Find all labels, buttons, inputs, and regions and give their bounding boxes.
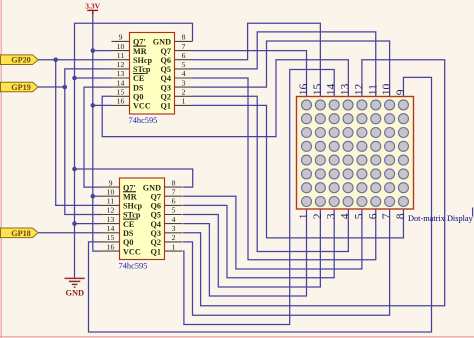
pin 15 stub U2 [102,241,120,243]
svg-text:SHcp: SHcp [123,202,143,211]
svg-text:2: 2 [311,213,324,219]
svg-text:MR: MR [133,47,147,56]
svg-text:GND: GND [65,289,84,298]
svg-text:7: 7 [182,42,186,51]
svg-text:DS: DS [123,229,134,238]
node junction at 92.8,196.2 [91,194,96,199]
svg-text:15: 15 [107,233,115,242]
node junction at 92.8,105.4 [91,103,96,108]
svg-text:SHcp: SHcp [133,56,153,65]
svg-text:16: 16 [117,97,125,106]
wire IC1 pin6 Q6 to display pin15 [193,23,321,96]
pin 11 stub U1 [112,59,130,61]
svg-text:13: 13 [339,84,352,96]
pin 7 stub U1 [175,50,193,52]
svg-text:16: 16 [297,84,310,96]
svg-text:11: 11 [117,51,125,60]
pin 5 stub U2 [165,214,183,216]
svg-text:12: 12 [117,60,125,69]
wire IC1 pin2 Q2 to display pin4 [193,96,349,251]
wire IC1 pin4 Q4 to display pin6 [193,78,376,260]
svg-text:Q6: Q6 [161,56,171,65]
svg-text:Q7: Q7 [161,47,171,56]
wire IC1 pin3 Q3 to display pin10 [193,41,390,97]
svg-text:Dot-matrix Display: Dot-matrix Display [408,214,474,223]
pin 16 stub U2 [102,250,120,252]
wire IC1 pin5 Q5 to display pin11 [193,32,376,97]
sheet border [0,0,2,338]
svg-text:8: 8 [182,33,186,42]
wire STcp net IC1 pin12 to IC2 pin12 [65,69,112,215]
svg-text:5: 5 [182,60,186,69]
svg-text:DS: DS [133,83,144,92]
svg-text:6: 6 [366,213,379,219]
svg-text:Q2: Q2 [151,238,161,247]
svg-text:11: 11 [366,84,379,95]
pin 8 stub U1 [175,40,193,42]
node junction at 92.8,50.6 [91,48,96,53]
node junction at 74.5,223.6 [72,221,77,226]
pin 13 stub U1 [112,77,130,79]
pin 16 stub U1 [112,104,130,106]
op-amp U1 shift register 74hc595 body [130,33,175,115]
port GP18 [1,228,39,238]
wire GND net: IC1 pin8 up-over-down to ground rail [75,23,193,277]
port GP20 [1,55,39,65]
pin 3 stub U2 [165,232,183,234]
svg-text:11: 11 [107,197,115,206]
svg-text:Q7′: Q7′ [123,183,136,192]
wire GP19 to STcp net [38,86,65,88]
op-amp U2 shift register 74hc595 body [120,178,165,260]
pin 11 stub U2 [102,204,120,206]
svg-text:12: 12 [352,84,365,96]
svg-text:Q5: Q5 [151,211,161,220]
svg-text:9: 9 [109,178,113,187]
pin 14 stub U1 [112,86,130,88]
pin 10 stub U1 [112,50,130,52]
pin 13 stub U2 [102,223,120,225]
wire IC2 pin3 to display pin12 around right side [183,60,445,306]
svg-text:13: 13 [107,215,115,224]
pin 1 stub U1 [175,104,193,106]
svg-text:Q1: Q1 [151,247,161,256]
svg-text:Q3: Q3 [151,229,161,238]
wire IC2 pin4 to display pin1 [183,209,307,296]
svg-text:10: 10 [107,187,115,196]
wire IC2 pin15 Q0 to display pin9 around right side [89,77,432,332]
svg-text:1: 1 [297,213,310,219]
wire 3.3V rail down to IC2 pin16 VCC [93,11,102,251]
svg-text:6: 6 [172,197,176,206]
pin 8 stub U2 [165,186,183,188]
svg-text:4: 4 [339,213,352,219]
node junction at 64.8,87 [63,85,68,90]
pin 9 stub U1 [112,40,130,42]
svg-text:GP19: GP19 [11,83,31,92]
svg-text:10: 10 [380,84,393,96]
svg-text:1: 1 [182,97,186,106]
dot-matrix LED circles [302,100,312,110]
wire GND branch to IC2 pin8 [75,169,193,187]
svg-text:74hc595: 74hc595 [129,116,158,125]
svg-text:4: 4 [172,215,176,224]
svg-text:GP20: GP20 [11,56,31,65]
svg-text:3: 3 [325,213,338,219]
svg-text:Q6: Q6 [151,202,161,211]
svg-text:14: 14 [325,84,338,96]
pin 1 stub U2 [165,250,183,252]
pin 4 stub U1 [175,77,193,79]
pin 14 stub U2 [102,232,120,234]
svg-text:VCC: VCC [133,102,151,111]
pin 5 stub U1 [175,68,193,70]
wire GP20 to IC1 pin11 SHcp [38,59,112,61]
svg-text:74hc595: 74hc595 [119,262,148,271]
node junction at 74.5,78 [72,76,77,81]
svg-text:Q0: Q0 [123,238,133,247]
svg-text:12: 12 [107,206,115,215]
svg-text:Q3: Q3 [161,83,171,92]
wire IC2 pin1 to display pin14 [183,70,334,325]
pin 15 stub U1 [112,95,130,97]
svg-text:13: 13 [117,69,125,78]
wire IC2 pin2 to display pin7 [183,209,390,315]
pin 6 stub U2 [165,204,183,206]
svg-text:STcp: STcp [133,65,151,74]
wire GP18 to IC2 pin14 DS [38,232,102,234]
svg-text:Q1: Q1 [161,102,171,111]
node junction at 55.7,59.7 [53,57,58,62]
pin 2 stub U2 [165,241,183,243]
svg-text:5: 5 [352,213,365,219]
port GP19 [1,82,39,92]
svg-text:3: 3 [172,224,176,233]
node junction at 74.5,169 [72,167,77,172]
wire 3.3V branch to IC1 pin10 MR [93,50,112,52]
svg-text:14: 14 [107,224,115,233]
wire IC1 pin15 Q0 to display pin13 [102,60,348,137]
svg-text:2: 2 [182,88,186,97]
svg-text:CE: CE [133,74,145,83]
svg-text:GP18: GP18 [11,229,31,238]
svg-text:MR: MR [123,192,137,201]
wire IC2 pin5 to display pin2 [183,209,320,287]
svg-text:Q7: Q7 [151,192,161,201]
wire tick at right edge [472,208,474,217]
svg-text:10: 10 [117,42,125,51]
ground GND [65,278,85,297]
wire SHcp net down to IC2 pin11 [56,60,102,206]
svg-text:STcp: STcp [123,211,141,220]
wire IC1 pin1 Q1 to display pin8 [193,105,404,238]
svg-text:CE: CE [123,220,135,229]
svg-text:GND: GND [143,183,161,192]
pin 3 stub U1 [175,86,193,88]
svg-text:Q4: Q4 [151,220,161,229]
pin 4 stub U2 [165,223,183,225]
svg-text:Q5: Q5 [161,65,171,74]
svg-text:15: 15 [117,88,125,97]
svg-text:Q7′: Q7′ [133,38,146,47]
wire 3.3V branch to IC1 pin16 VCC [93,104,112,106]
pin 10 stub U2 [102,195,120,197]
svg-text:15: 15 [311,84,324,96]
svg-text:Q2: Q2 [161,93,171,102]
svg-text:Q0: Q0 [133,93,143,102]
svg-text:16: 16 [107,242,115,251]
pin 12 stub U2 [102,214,120,216]
svg-text:8: 8 [394,213,407,219]
power 3.3V [85,2,100,15]
svg-text:VCC: VCC [123,247,141,256]
svg-text:3: 3 [182,78,186,87]
svg-text:14: 14 [117,78,125,87]
svg-text:5: 5 [172,206,176,215]
svg-text:4: 4 [182,69,186,78]
wire GND branch to IC1 pin13 CE [75,77,112,79]
pin 12 stub U1 [112,68,130,70]
wire IC2 pin7 to display pin5 [183,196,362,269]
pin 7 stub U2 [165,195,183,197]
svg-text:7: 7 [172,187,176,196]
pin 6 stub U1 [175,59,193,61]
svg-text:9: 9 [394,89,407,95]
svg-text:GND: GND [153,38,171,47]
svg-text:1: 1 [172,242,176,251]
svg-text:3.3V: 3.3V [85,2,100,11]
wire cascade IC2 pin9 Q7' to IC1 pin14 DS [84,87,112,187]
svg-text:7: 7 [380,213,393,219]
wire 3.3V branch to IC2 pin10 MR [93,195,102,197]
pin 2 stub U1 [175,95,193,97]
svg-text:9: 9 [119,33,123,42]
svg-text:8: 8 [172,178,176,187]
svg-text:Q4: Q4 [161,74,171,83]
wire GND branch to IC2 pin13 CE [75,223,102,225]
wire IC1 pin7 Q7 to display pin16 [193,51,307,97]
wire IC2 pin6 to display pin3 [183,205,334,277]
pin 9 stub U2 [102,186,120,188]
svg-text:2: 2 [172,233,176,242]
svg-text:6: 6 [182,51,186,60]
dot-matrix display DS1 body [297,97,414,210]
